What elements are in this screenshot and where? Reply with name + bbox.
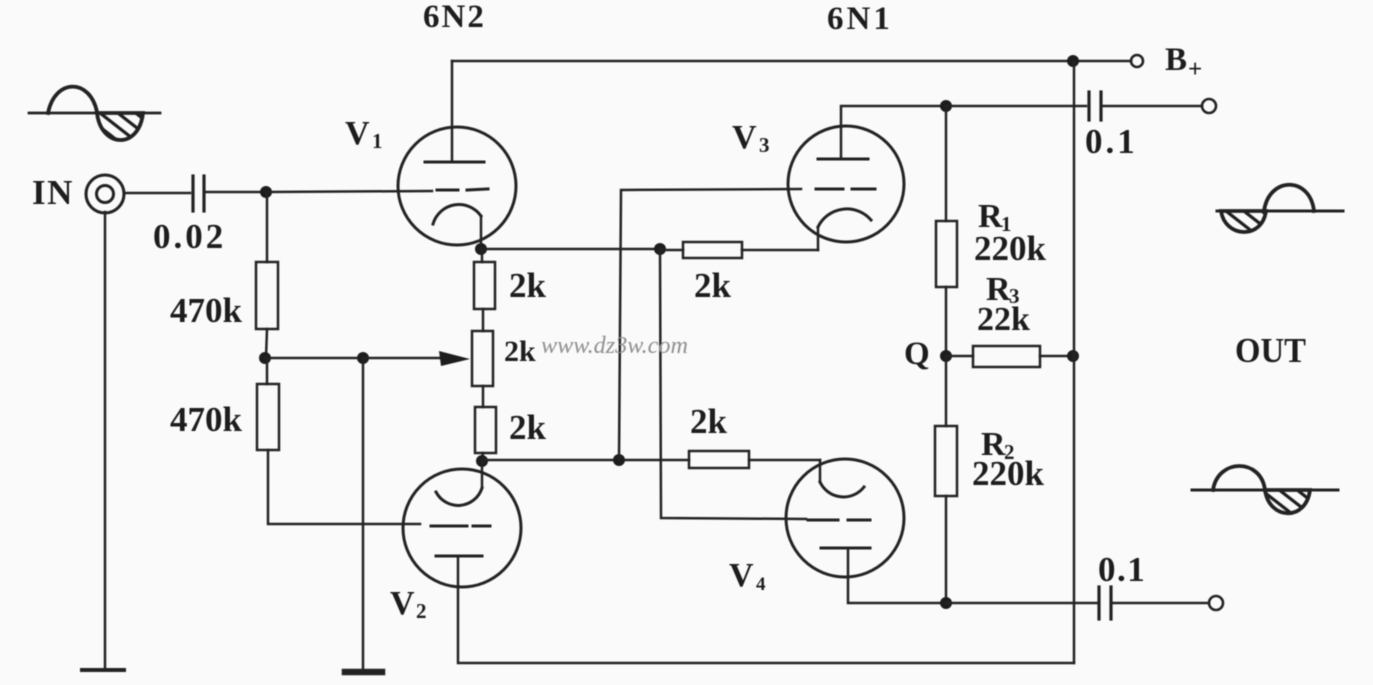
node at grid of V1 bbox=[260, 186, 272, 198]
ground input bbox=[82, 668, 124, 672]
wire lower output bbox=[946, 602, 1099, 605]
node B+ riser bbox=[1067, 55, 1079, 67]
V2 plate bbox=[436, 555, 482, 558]
svg-text:220k: 220k bbox=[972, 454, 1045, 493]
resistor R1 220k bbox=[936, 221, 957, 287]
V1 cathode bbox=[433, 205, 481, 224]
svg-text:220k: 220k bbox=[974, 229, 1047, 268]
triode V1 envelope bbox=[398, 127, 516, 245]
wire 2k to V3 cathode lead bbox=[742, 249, 818, 252]
wire cap to upper output terminal bbox=[1101, 105, 1202, 108]
B+ riser wire bbox=[1073, 61, 1076, 663]
svg-text:V: V bbox=[729, 557, 754, 594]
svg-text:6N1: 6N1 bbox=[827, 1, 893, 37]
svg-text:1: 1 bbox=[372, 129, 383, 153]
wire Q to R3 bbox=[946, 355, 973, 358]
wire 2k lower to V2 cathode node bbox=[482, 453, 483, 461]
svg-text:B: B bbox=[1165, 42, 1187, 78]
wire node down to 470k R upper bbox=[266, 192, 269, 262]
wire V3 grid riser bbox=[619, 189, 801, 460]
wire bias node down to 470k lower bbox=[266, 358, 269, 384]
svg-text:OUT: OUT bbox=[1235, 331, 1306, 370]
triode V4 envelope bbox=[786, 459, 904, 577]
V3 cathode lead bbox=[817, 227, 820, 250]
resistor R3 22k bbox=[973, 346, 1040, 367]
resistor 2k V3 cathode bbox=[683, 242, 742, 258]
svg-text:2k: 2k bbox=[690, 402, 728, 441]
V4 cathode bbox=[820, 482, 864, 497]
wire V1 cathode chain bbox=[481, 250, 484, 262]
capacitor 0.1 upper bbox=[1089, 92, 1101, 120]
wire coupling node to 2k (V3 cathode R) bbox=[660, 249, 683, 252]
wire V2 cathode to lower coupling bbox=[482, 459, 689, 462]
wire R1 to Q node bbox=[945, 287, 948, 356]
svg-text:0.02: 0.02 bbox=[153, 217, 226, 256]
svg-text:V: V bbox=[732, 119, 757, 156]
node coupling upper bbox=[654, 243, 666, 255]
V2 plate lead bbox=[458, 556, 1074, 663]
node V2 cathode bbox=[476, 455, 488, 467]
svg-text:470k: 470k bbox=[170, 400, 243, 439]
svg-text:+: + bbox=[1188, 56, 1202, 83]
wire jack to capacitor bbox=[124, 192, 190, 195]
input sine waveform bbox=[29, 87, 160, 140]
V4 cathode lead bbox=[819, 460, 822, 482]
V4 grid dashes bbox=[808, 519, 870, 522]
svg-text:0.1: 0.1 bbox=[1098, 550, 1146, 589]
svg-text:3: 3 bbox=[759, 133, 770, 157]
V2 cathode lead bbox=[481, 461, 484, 488]
svg-text:2k: 2k bbox=[509, 408, 547, 447]
wire node to wiper arrow bbox=[363, 357, 445, 360]
wire 2k to V4 cathode lead bbox=[749, 459, 820, 462]
V4 plate bbox=[821, 547, 870, 550]
upper output waveform (inverted) bbox=[1217, 185, 1343, 232]
wire Q to R2 bbox=[945, 356, 948, 426]
node lower coupling bbox=[613, 454, 625, 466]
resistor 470k lower bbox=[257, 384, 279, 450]
node V3 plate / R1 bbox=[940, 100, 952, 112]
V3 plate lead bbox=[841, 106, 946, 159]
svg-text:2k: 2k bbox=[694, 266, 732, 305]
wire cap to lower output terminal bbox=[1111, 602, 1209, 605]
svg-text:V: V bbox=[345, 115, 370, 152]
node V1 cathode bbox=[475, 243, 487, 255]
node R3 riser bbox=[1067, 350, 1079, 362]
resistor 2k middle (hum balance) bbox=[472, 331, 493, 386]
resistor 2k V4 cathode bbox=[689, 451, 749, 468]
svg-text:6N2: 6N2 bbox=[423, 0, 486, 35]
B+ supply rail bbox=[452, 60, 1131, 63]
triode V3 envelope bbox=[788, 126, 904, 242]
wire capacitor to grid node bbox=[204, 191, 266, 194]
svg-text:V: V bbox=[390, 585, 415, 622]
wire 470k upper to bias node bbox=[266, 329, 267, 358]
node Q bbox=[940, 350, 952, 362]
resistor 470k upper bbox=[256, 262, 278, 329]
svg-text:2: 2 bbox=[416, 599, 427, 623]
V1 plate lead bbox=[451, 61, 454, 162]
wire node to V1 grid bbox=[266, 191, 432, 192]
wire R2 to output node bbox=[945, 496, 948, 603]
V1 plate bbox=[425, 161, 484, 164]
V3 cathode bbox=[818, 209, 871, 227]
wire node to R1 bbox=[945, 106, 948, 221]
terminal upper output bbox=[1202, 99, 1216, 113]
wire R3 to riser bbox=[1040, 355, 1073, 358]
wire 2k upper to 2k middle bbox=[482, 309, 485, 331]
wire upper output bbox=[946, 105, 1086, 108]
V4 plate lead bbox=[848, 548, 946, 603]
svg-text:IN: IN bbox=[32, 173, 74, 212]
terminal lower output bbox=[1209, 596, 1223, 610]
triode V2 envelope bbox=[403, 469, 521, 587]
wire 470k lower to V2 grid bbox=[268, 450, 420, 524]
svg-text:22k: 22k bbox=[977, 301, 1030, 338]
wire branch node to ground bbox=[362, 358, 365, 671]
wire V1 cathode to coupling node bbox=[481, 248, 660, 251]
capacitor 0.02 bbox=[193, 176, 204, 211]
svg-text:0.1: 0.1 bbox=[1085, 122, 1138, 161]
node ground branch bbox=[357, 352, 369, 364]
V1 cathode lead bbox=[480, 216, 483, 250]
resistor 2k upper bbox=[474, 262, 495, 309]
wire V4 grid riser bbox=[660, 249, 806, 519]
V1 grid dashes bbox=[437, 189, 488, 190]
svg-text:Q: Q bbox=[904, 336, 930, 372]
svg-text:2k: 2k bbox=[504, 335, 536, 368]
wiper arrowhead bbox=[439, 351, 470, 366]
lower output waveform bbox=[1192, 466, 1338, 513]
svg-text:470k: 470k bbox=[170, 291, 243, 330]
input jack J1 bbox=[86, 175, 124, 213]
svg-text:4: 4 bbox=[756, 574, 766, 595]
resistor R2 220k bbox=[935, 426, 957, 496]
node bias divider bbox=[259, 352, 271, 364]
svg-text:www.dz3w.com: www.dz3w.com bbox=[541, 333, 688, 359]
resistor 2k lower bbox=[475, 407, 496, 453]
V3 grid dashes bbox=[816, 188, 875, 191]
terminal B+ bbox=[1131, 55, 1143, 67]
ground bias bbox=[345, 669, 382, 676]
wire 2k middle to 2k lower bbox=[482, 386, 485, 407]
V2 grid dashes bbox=[431, 525, 490, 528]
svg-text:2k: 2k bbox=[509, 266, 547, 305]
wire bias node to ground branch node bbox=[265, 357, 363, 360]
capacitor 0.1 lower bbox=[1099, 587, 1111, 619]
node lower output bbox=[940, 597, 952, 609]
V2 cathode bbox=[436, 488, 482, 505]
V3 plate bbox=[818, 158, 868, 161]
wire jack sleeve to ground bbox=[104, 212, 107, 669]
